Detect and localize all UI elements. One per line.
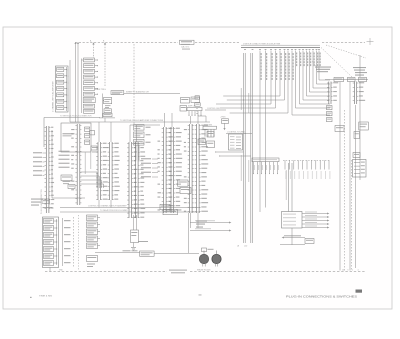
connector J6 strip bbox=[158, 127, 174, 213]
capacitor C5 timing bbox=[220, 117, 229, 131]
bus CONTROL TO CHANNEL SWITCH bbox=[60, 205, 200, 213]
svg-text:SHUNT PLUGS: SHUNT PLUGS bbox=[197, 269, 211, 271]
vertical label on J1B bbox=[85, 150, 91, 174]
connector J1 left plug-in strip bbox=[45, 126, 55, 213]
title PLUG-IN CONNECTIONS AND SWITCHES bbox=[286, 294, 357, 298]
comb pin number labels bbox=[244, 49, 320, 50]
switch block S5 plug-in logic bbox=[282, 212, 303, 229]
wire cal feed pair bbox=[74, 42, 79, 122]
connector J3 strip bbox=[108, 142, 120, 200]
svg-text:L10: L10 bbox=[244, 246, 247, 248]
wire right long vertical 4 bbox=[355, 105, 357, 268]
label bracket right of comb bbox=[353, 67, 367, 76]
svg-text:MAIN TRIG: MAIN TRIG bbox=[95, 88, 106, 91]
labels L8 L10 bbox=[237, 246, 247, 248]
svg-text:1: 1 bbox=[352, 269, 353, 271]
wire right long vertical 1 bbox=[339, 82, 341, 271]
sheet note TIME 4 MS bbox=[30, 296, 53, 298]
wire sweep strip risers bbox=[165, 113, 199, 127]
connector J1B centre strip bbox=[71, 124, 81, 205]
svg-text:8: 8 bbox=[68, 108, 69, 110]
plug-in housing outline bbox=[61, 123, 91, 152]
wire S5 to bus bbox=[291, 228, 293, 245]
wire J4 J5 risers bbox=[130, 125, 160, 142]
bottom stray tick bbox=[199, 294, 202, 297]
S10 row labels bbox=[64, 220, 71, 263]
trigger pickoff label box bbox=[61, 175, 72, 184]
net SWEEP A vertical pair bbox=[241, 53, 245, 243]
comb drop wires to left bends bbox=[216, 51, 288, 114]
wire right long vertical 3 bbox=[349, 82, 351, 271]
bus bar TIME/CM switch comb bbox=[241, 43, 320, 48]
meter M1 shunt plug bbox=[199, 251, 208, 267]
svg-text:2: 2 bbox=[68, 70, 69, 72]
net horizontal link to test jacks bbox=[95, 250, 140, 252]
calibrator note text block bbox=[312, 62, 331, 73]
comb vertical wire text labels bbox=[261, 53, 294, 80]
J1 right text rows bbox=[59, 151, 70, 168]
connector J4 strip bbox=[127, 142, 137, 218]
wire right long vertical 5 bbox=[359, 82, 361, 181]
transistor Q1 trigger shaper bbox=[103, 98, 112, 104]
svg-text:L8: L8 bbox=[237, 246, 239, 248]
ground lug box bbox=[42, 199, 53, 208]
comb right vertical text labels bbox=[296, 53, 321, 67]
wire trigger output bar bbox=[99, 118, 115, 122]
svg-text:4: 4 bbox=[358, 269, 359, 271]
svg-text:TO DELAY PICKOFF FOLLOWER: TO DELAY PICKOFF FOLLOWER bbox=[100, 209, 128, 212]
svg-text:6: 6 bbox=[348, 269, 349, 271]
sweep output box pair bbox=[160, 204, 178, 214]
dotted leader diagonals bbox=[321, 45, 366, 77]
J6 left signal labels bbox=[141, 158, 158, 177]
resistor R10 box bbox=[103, 113, 112, 116]
test point TP1 box bbox=[83, 98, 95, 103]
J10 lower pin boxes bbox=[327, 106, 333, 122]
terminal comb TB4 labeled bbox=[252, 158, 279, 174]
svg-text:5 CHANNEL VERTICAL AMPLIFIER: 5 CHANNEL VERTICAL AMPLIFIER bbox=[52, 81, 55, 112]
svg-text:CONTROL TO CHANNEL SWITCH VIA: CONTROL TO CHANNEL SWITCH VIA SWEEP bbox=[88, 205, 127, 208]
net interconnect rail with fuse boxes bbox=[325, 77, 368, 81]
wire to vertical plug-in connector bbox=[44, 115, 100, 147]
wire trigger stem bbox=[101, 94, 103, 119]
ground symbol bottom left bbox=[131, 241, 148, 251]
switch S1 VOLTS/DIV wafer bbox=[56, 66, 69, 112]
net TO VERTICAL PLUG wire bbox=[118, 119, 210, 122]
comb drop wires right group bbox=[292, 51, 330, 116]
switch S10 wafer column bbox=[43, 217, 59, 268]
test select wires with arrows bbox=[189, 213, 232, 253]
left margin notes bbox=[31, 199, 43, 206]
S5 output arrows bbox=[302, 212, 329, 229]
wire relay feeds bbox=[136, 145, 139, 160]
net SWEEP TO BLANKING bbox=[124, 91, 181, 94]
wire S10 rail bbox=[57, 218, 63, 266]
svg-text:TO VERTICAL PLUG-IN CONNECTOR: TO VERTICAL PLUG-IN CONNECTOR bbox=[60, 115, 92, 118]
svg-text:7: 7 bbox=[68, 101, 69, 103]
lamp DS1 box bbox=[202, 248, 214, 252]
connector J10 right column bbox=[327, 82, 338, 105]
attenuator tap boxes R1-R7 bbox=[84, 58, 98, 96]
svg-text:L CONTROL TO CHAN: L CONTROL TO CHAN bbox=[227, 131, 245, 134]
svg-text:TO VERTICAL PLUG-IN AMPLIFIER: TO VERTICAL PLUG-IN AMPLIFIER CONNECTION… bbox=[120, 119, 164, 122]
wire right long vertical 3b dotted bbox=[351, 160, 353, 271]
attenuator lower boxes R8 R9 bbox=[84, 104, 95, 113]
node A probe arrow bbox=[90, 40, 95, 59]
J11 label block bbox=[359, 122, 369, 130]
wire right long vertical 2 dotted bbox=[344, 110, 346, 271]
junction dots on sweep verticals bbox=[243, 99, 251, 134]
pilot lamp DS2 box bbox=[305, 239, 314, 244]
svg-text:5 SWITCH CONTACTS TIME/CM: 5 SWITCH CONTACTS TIME/CM & DELAY TIME bbox=[243, 43, 281, 46]
bus gap label DELAY PICKOFF bbox=[169, 270, 187, 274]
bus chassis dashed line bbox=[45, 271, 365, 273]
inductor L1 box bbox=[335, 126, 344, 132]
svg-text:4: 4 bbox=[68, 82, 69, 84]
dashed riser bottom left bbox=[73, 217, 75, 268]
svg-text:5: 5 bbox=[68, 89, 69, 91]
svg-text:3: 3 bbox=[68, 76, 69, 78]
wire right top stub bbox=[359, 55, 361, 77]
capacitor C1 coupling bbox=[104, 109, 111, 113]
amplifier U3 box pair bbox=[180, 97, 200, 111]
wire sweep pair left bends bbox=[215, 151, 251, 156]
net CAL dashed bus bbox=[75, 42, 365, 44]
net return arrow wire bbox=[280, 235, 305, 244]
dotted riser bottom left 2 bbox=[78, 215, 80, 270]
J1 signal name labels bbox=[33, 152, 45, 176]
wire S10 to bus bbox=[50, 268, 64, 272]
relay K4 contact box bbox=[229, 134, 243, 150]
relay K2 box stack bbox=[134, 125, 151, 146]
svg-text:CONTROL SIG: CONTROL SIG bbox=[207, 108, 220, 110]
wire J1 bend to bus bbox=[52, 130, 85, 198]
wire J2 J3 risers bbox=[99, 122, 111, 142]
svg-text:CAL 1KC: CAL 1KC bbox=[181, 46, 190, 49]
relay K5 delay pickoff block bbox=[353, 153, 367, 178]
lower mid labels bbox=[196, 221, 207, 228]
svg-text:+TRIG: +TRIG bbox=[220, 117, 226, 119]
svg-text:PLUG-IN CONNECTIONS & SWITC: PLUG-IN CONNECTIONS & SWITCHES bbox=[286, 294, 357, 298]
fuse F1 box bbox=[140, 251, 199, 256]
label +TRIG bbox=[105, 105, 111, 108]
sweep generator U2 boxes bbox=[195, 96, 200, 114]
terminal bar TB3 bbox=[203, 124, 217, 136]
connector J2 strip bbox=[96, 142, 108, 200]
bus pin labels right bbox=[342, 269, 359, 271]
calibrator CAL1 bbox=[180, 40, 195, 49]
dashed link calibrator to relay stack bbox=[133, 44, 135, 124]
svg-text:6: 6 bbox=[68, 95, 69, 97]
housing lower labels bbox=[91, 146, 98, 152]
wire sweep chassis link bbox=[70, 118, 118, 122]
net delay gate vertical pair bbox=[286, 163, 292, 212]
wire J8 J9 tails bbox=[191, 213, 199, 228]
net control wire bbox=[205, 108, 226, 110]
meter M2 shunt plug bbox=[212, 251, 221, 267]
net SWEEP B vertical pair bbox=[248, 53, 252, 243]
trigger block U1 label bbox=[95, 88, 124, 94]
wire bends above J8 bbox=[198, 116, 206, 122]
connector J9 strip bbox=[195, 124, 209, 213]
S11 lower box bbox=[87, 256, 98, 268]
net channel bus label bbox=[226, 131, 252, 134]
comb drop wires deep pair bbox=[260, 51, 266, 213]
resistor R15 box bbox=[68, 185, 75, 189]
connector J8 strip bbox=[184, 124, 194, 213]
capacitor C8 box bbox=[354, 132, 360, 139]
housing inner pin boxes bbox=[85, 127, 95, 144]
connector J11 right column bbox=[353, 82, 365, 105]
wire routing bends J1B to J2 bbox=[81, 172, 104, 188]
connector J5 strip bbox=[134, 142, 146, 218]
registration cross bbox=[367, 38, 374, 45]
svg-text:10: 10 bbox=[342, 269, 344, 271]
logo TB mark bbox=[356, 290, 363, 293]
relay K6 small box bbox=[131, 215, 139, 247]
terminal bar TB2 with pins bbox=[187, 105, 202, 116]
relay K3 pair bbox=[178, 180, 192, 194]
terminal comb dotted extension bbox=[283, 160, 330, 179]
wire attenuator feed bbox=[82, 59, 84, 114]
svg-text:TIME 4 MS: TIME 4 MS bbox=[39, 296, 53, 298]
diode CR1 cluster bbox=[198, 132, 215, 148]
S1 contact number labels bbox=[68, 70, 69, 110]
wire J2 J3 tails bbox=[99, 200, 111, 208]
switch S11 wafer column bbox=[87, 215, 101, 249]
svg-text:SWEEP TO BLANKING CRT: SWEEP TO BLANKING CRT bbox=[126, 91, 150, 94]
connector J7 strip bbox=[169, 127, 182, 213]
wire S1 common rail bbox=[66, 60, 70, 118]
node B probe arrow bbox=[103, 41, 106, 87]
